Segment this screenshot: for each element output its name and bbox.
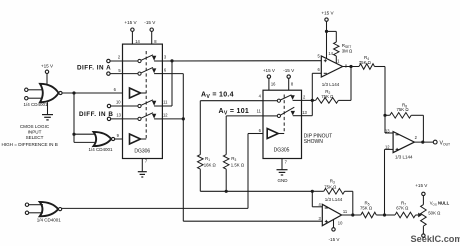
svg-text:1.5K Ω: 1.5K Ω: [231, 163, 245, 168]
node pin12 junction: [182, 117, 185, 120]
svg-text:13: 13: [302, 110, 307, 115]
resistor R3f 75K feedback A3: [312, 190, 324, 192]
svg-text:50K Ω: 50K Ω: [428, 211, 441, 216]
svg-text:DG306: DG306: [134, 149, 150, 155]
ground below U2a: [47, 102, 49, 114]
analog switch U1 DG306: [123, 44, 163, 158]
resistor R5 75K: [361, 212, 377, 218]
svg-text:67K Ω: 67K Ω: [396, 205, 409, 210]
wire bottom rail R1/R3 to A3 inverting node: [200, 190, 312, 192]
wire R4 down to A2 inverting node: [384, 67, 386, 116]
wire U2a output to DG306 pin 6: [62, 92, 122, 94]
svg-text:1/3 L144: 1/3 L144: [322, 82, 340, 87]
svg-text:+15 V: +15 V: [41, 64, 54, 69]
resistor R3 1.5K: [225, 116, 227, 155]
power -15V for A3 pin 10: [333, 220, 335, 228]
svg-text:SHOWN: SHOWN: [304, 139, 324, 145]
switch S6 pins 11-13 (crossing): [263, 115, 277, 117]
svg-text:+15 V: +15 V: [415, 183, 428, 188]
svg-text:+15 V: +15 V: [321, 11, 334, 16]
node A2 output: [421, 141, 424, 144]
op-amp A1 1/3 L144: [321, 56, 342, 77]
svg-text:1/4 CD4001: 1/4 CD4001: [37, 217, 62, 222]
svg-text:11: 11: [343, 209, 348, 214]
svg-text:75K Ω: 75K Ω: [360, 205, 373, 210]
resistor R2 75K feedback A1: [350, 67, 352, 101]
node A3 output: [351, 213, 354, 216]
node A2 inverting: [383, 114, 386, 117]
node A1 output: [349, 65, 352, 68]
resistor R4 75K: [359, 64, 375, 70]
svg-text:DG305: DG305: [274, 147, 290, 153]
wire U2b output to DG306 pin 9: [114, 138, 122, 140]
svg-text:11: 11: [163, 100, 168, 105]
switch S1 pins 2-3: [138, 59, 141, 62]
switch S2 pins 5-6: [138, 72, 141, 75]
wire A3 output: [342, 214, 361, 216]
wire U2c output to DG305 pin 6: [62, 207, 248, 209]
svg-text:14: 14: [328, 51, 333, 56]
dashed control line U1: [145, 51, 147, 139]
buffer driver B (pin 9): [130, 134, 141, 144]
nor gate U2b 1/4 CD4001: [94, 132, 112, 146]
nor gate U2a 1/4 CD4001: [40, 84, 59, 102]
resistor R1 16K: [199, 101, 201, 155]
resistor RSET 3M: [327, 30, 337, 32]
svg-text:75K Ω: 75K Ω: [324, 185, 337, 190]
svg-text:1/4 CD4001: 1/4 CD4001: [88, 147, 113, 152]
svg-text:-15 V: -15 V: [144, 20, 156, 25]
svg-text:INPUT: INPUT: [28, 129, 42, 134]
node R3 bottom: [225, 190, 228, 193]
svg-text:13: 13: [116, 113, 121, 118]
node R5/R7/A2 junction: [383, 213, 386, 216]
wire to A2 inverting input pin 13: [384, 115, 386, 133]
wire Av 101 to U3 pin 11: [226, 115, 263, 117]
node A3 inverting: [311, 190, 314, 193]
svg-text:DIFF. IN A: DIFF. IN A: [77, 65, 111, 72]
svg-text:12: 12: [163, 113, 168, 118]
svg-text:CMOS LOGIC: CMOS LOGIC: [20, 124, 50, 129]
op-amp A3 1/3 L144: [322, 204, 341, 225]
svg-text:75K Ω: 75K Ω: [359, 60, 372, 65]
node A1 feedback: [311, 99, 314, 102]
wire U3 pin 2 to A1 inverting node: [302, 99, 313, 101]
terminal VOUT: [433, 140, 437, 144]
svg-text:13: 13: [385, 128, 390, 133]
svg-text:11: 11: [257, 109, 262, 114]
svg-text:HIGH = DIFFERENCE IN B: HIGH = DIFFERENCE IN B: [2, 142, 58, 147]
node pin3 junction: [170, 59, 173, 62]
svg-text:+15 V: +15 V: [263, 68, 276, 73]
svg-text:75K Ω: 75K Ω: [321, 94, 334, 99]
wire U3 pin 13 up to A1 inverting node: [302, 115, 313, 117]
svg-text:16: 16: [271, 82, 276, 87]
node RSET branch: [325, 30, 328, 33]
svg-text:12: 12: [385, 145, 390, 150]
svg-text:+15 V: +15 V: [124, 20, 137, 25]
wire Av 10.4 to U3 pin 4: [200, 100, 263, 102]
switch S4 pins 13-12: [138, 117, 141, 120]
wire pins 3,11 tied to A1 + input: [162, 60, 321, 62]
nor gate U2c 1/4 CD4001 (bottom): [25, 203, 28, 206]
svg-text:1/3 L144: 1/3 L144: [325, 197, 343, 202]
switch S3 pins 10-11: [138, 104, 141, 107]
svg-text:SeekIC.com: SeekIC.com: [411, 234, 460, 244]
svg-text:-15 V: -15 V: [283, 68, 295, 73]
wire A2 + input from R5/R7 node: [385, 148, 394, 150]
switch S5 pins 4-2: [263, 100, 277, 102]
wire pins 6,12 tied down to A3 + input: [162, 73, 183, 75]
svg-text:10: 10: [116, 100, 121, 105]
svg-text:75K Ω: 75K Ω: [397, 107, 410, 112]
wire A1 output: [343, 66, 359, 68]
svg-text:-15 V: -15 V: [329, 237, 341, 242]
dashed control line U3: [283, 95, 285, 134]
svg-text:GND: GND: [278, 178, 289, 183]
svg-text:SELECT: SELECT: [26, 135, 44, 140]
wire A2 output to VOUT: [414, 141, 433, 143]
node U2a output junction: [72, 91, 75, 94]
analog switch U3 DG305: [263, 90, 302, 158]
svg-text:3M Ω: 3M Ω: [342, 48, 353, 53]
wire junction down to U2b inputs: [73, 93, 75, 142]
svg-text:16K Ω: 16K Ω: [204, 163, 217, 168]
svg-text:1/3 L144: 1/3 L144: [395, 155, 413, 160]
op-amp A2 1/3 L144: [393, 132, 414, 153]
resistor R7 67K: [385, 214, 396, 216]
wire vertical pin11 to pin3: [171, 61, 173, 106]
svg-text:1/4 CD4001: 1/4 CD4001: [23, 102, 48, 107]
svg-text:10: 10: [338, 220, 343, 225]
svg-text:14: 14: [135, 39, 140, 44]
resistor R8 75K feedback A2: [385, 114, 390, 116]
